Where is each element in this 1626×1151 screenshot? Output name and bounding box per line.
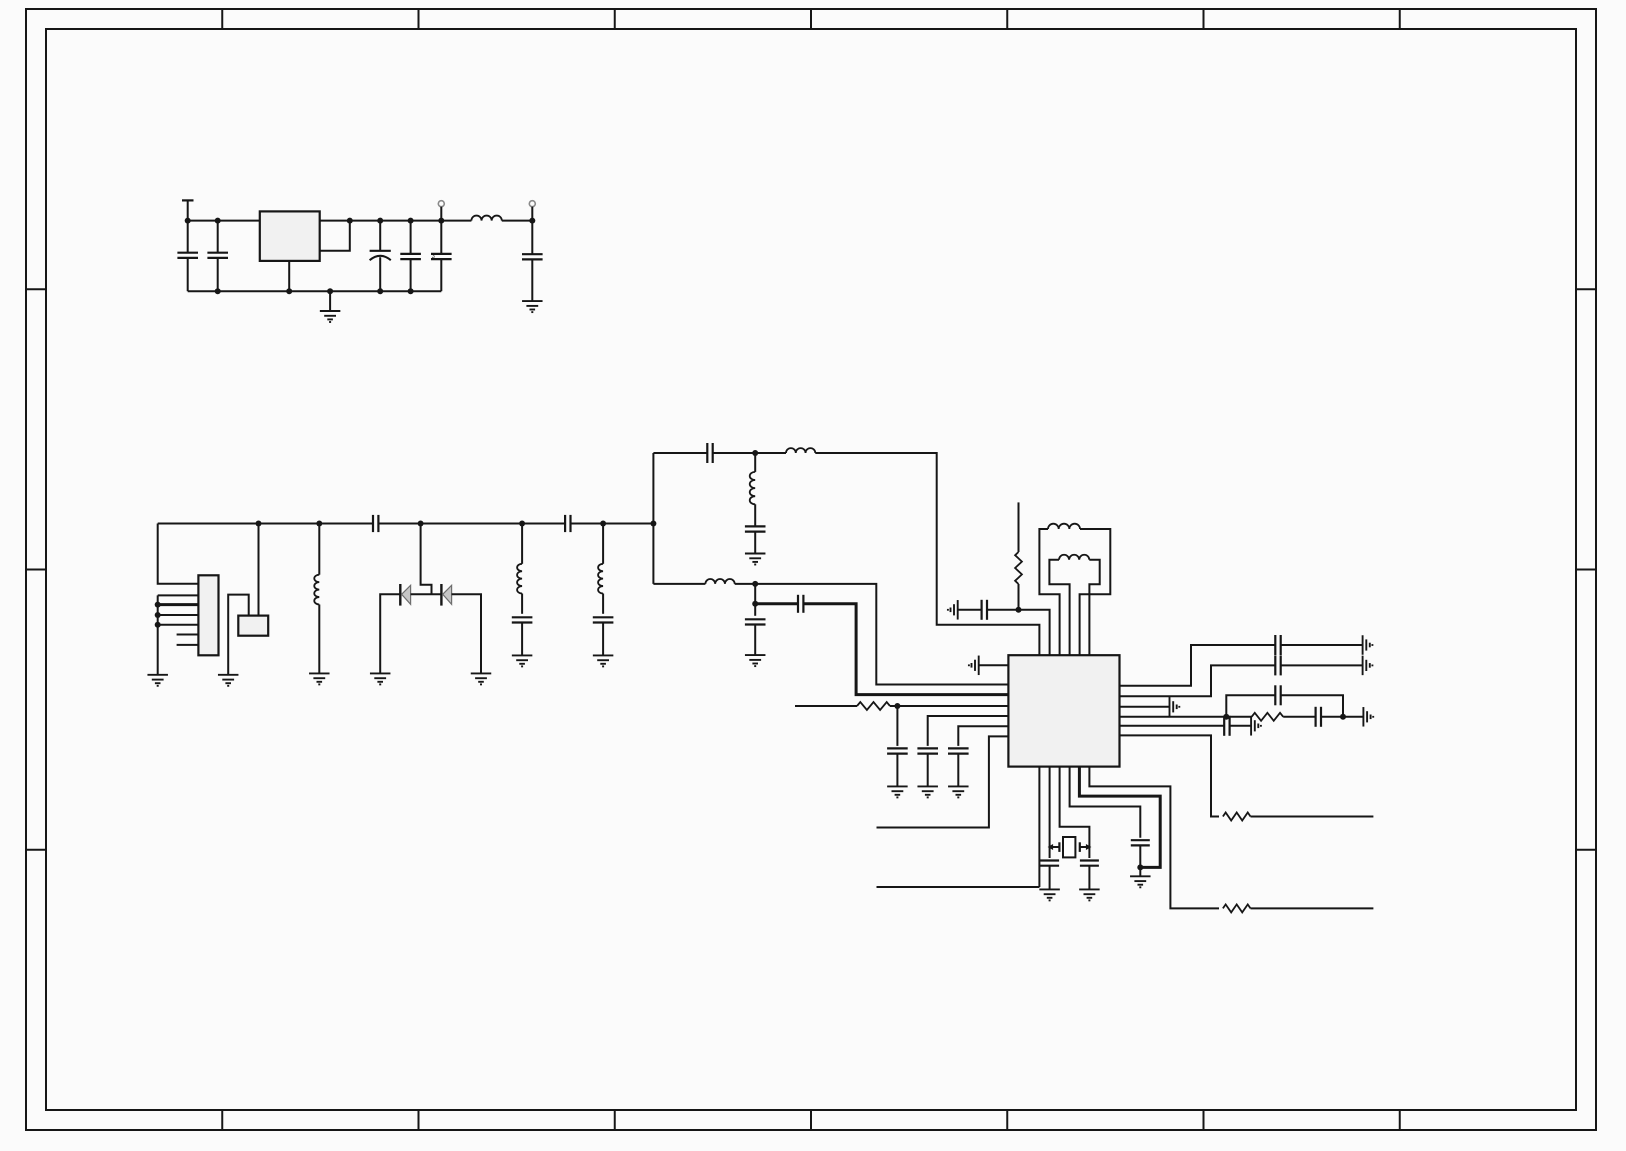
ground - L2	[309, 672, 330, 674]
node - branch L4 junction	[600, 521, 606, 527]
node - U2 rail junction	[256, 521, 262, 527]
capacitor C24 (parallel branch)	[1226, 685, 1343, 717]
capacitor C13 (series, thick line)	[798, 595, 803, 613]
varactor D1	[400, 584, 410, 606]
ground - D2	[471, 672, 492, 674]
inductor L1	[441, 216, 532, 221]
ground - right line1	[1362, 635, 1364, 655]
component U2	[238, 616, 268, 636]
wire - J1 pin1 to rail	[158, 524, 199, 584]
wire - IC pin to crystal right	[1060, 767, 1090, 858]
inductor L2 (shunt)	[314, 524, 319, 674]
ground - right line2	[1362, 656, 1364, 676]
node - pin3 junction	[155, 602, 161, 608]
node - C3 top	[377, 218, 383, 224]
wire - IC left pin to C17	[928, 716, 1009, 746]
node - upper matching node	[752, 450, 758, 456]
wire - L7 to node	[735, 583, 756, 585]
wire - J1 pin3 (thick)	[158, 603, 199, 606]
capacitor C15 (top bypass)	[958, 600, 1019, 620]
wire - D2 cathode to ground	[452, 594, 481, 673]
resistor R5	[1223, 904, 1251, 912]
ground - D1	[370, 672, 391, 674]
ground - RC network	[1362, 707, 1364, 727]
node - RC input	[1223, 714, 1229, 720]
node - diode feed junction	[418, 521, 424, 527]
ground - C19	[1039, 888, 1060, 890]
inductor L4	[598, 524, 603, 614]
regulator U1	[260, 211, 320, 261]
ground - J1	[147, 674, 168, 676]
wire - U1 ground lead	[288, 261, 290, 291]
capacitor C14 (shunt at lower node)	[745, 604, 766, 655]
node - C21 ground junction	[1137, 864, 1143, 870]
wire - C11 to node	[713, 452, 756, 454]
wire - C22 to ground	[1281, 644, 1363, 646]
resistor R1 (top stub)	[1015, 502, 1022, 609]
inductor L5 (series)	[755, 448, 815, 453]
IC U3	[1008, 655, 1119, 766]
ground - U2	[218, 674, 239, 676]
node - L1 output junction	[529, 218, 535, 224]
wire - IC right pin1 route	[1120, 645, 1276, 686]
terminal - regulator output	[438, 201, 444, 221]
node - pin4 junction	[155, 612, 161, 618]
wire - J1 pin6 stub	[177, 634, 199, 636]
capacitor C2	[207, 221, 228, 292]
ground - C9	[512, 654, 532, 656]
wire - U2 pin A to ground	[228, 595, 249, 675]
ground - top bypass	[957, 600, 959, 620]
node - C4 top	[408, 218, 414, 224]
wire - rail T junction vertical	[652, 453, 654, 584]
wire - D1 anode to ground	[380, 594, 400, 673]
wire - J1 ground bus	[157, 595, 159, 674]
wire - varactor feed from rail	[421, 524, 432, 595]
wire - IC right pin5	[1120, 725, 1225, 727]
crystal Y1	[1048, 837, 1092, 857]
wire - IC left pin to C18	[958, 726, 1008, 746]
wire - RC to ground	[1343, 716, 1363, 718]
inductor L6 (shunt at upper node)	[750, 453, 755, 526]
inductor L7 (series)	[705, 579, 734, 584]
power flag VCC	[182, 200, 194, 220]
ground - C16	[887, 785, 908, 787]
wire - lower node to IC RF pin	[755, 584, 1008, 685]
capacitor C26 (series)	[1224, 716, 1229, 736]
transformer T1 outer winding	[1039, 524, 1110, 656]
wire - IC pin to R5 line	[1089, 767, 1219, 909]
wire - IC right pin2 route	[1120, 665, 1276, 696]
node - lower matching node	[752, 581, 758, 587]
wire - main RF rail	[158, 523, 373, 525]
capacitor C23 (series)	[1275, 655, 1280, 675]
resistor R2 (left bias)	[795, 702, 1008, 710]
capacitor C20 (crystal load)	[1080, 861, 1099, 890]
node - R2 output junction	[894, 703, 900, 709]
capacitor C17 (bypass)	[917, 748, 938, 786]
wire - IC right pin4	[1120, 716, 1227, 718]
wire - J1 pin5	[158, 624, 199, 626]
wire - input rail	[188, 220, 442, 222]
wire - J1 pin7 stub	[177, 644, 199, 646]
varactor D2	[441, 584, 451, 606]
node - rail end junction	[650, 521, 656, 527]
connector J1	[198, 575, 218, 655]
node - C2 top junction	[215, 218, 221, 224]
wire - varactor common node	[411, 593, 442, 595]
capacitor C6	[522, 221, 543, 302]
wire - IC pin XTAL1	[1038, 767, 1040, 887]
ground - right pin5	[1250, 716, 1252, 736]
wire - IC left pin stub (enable)	[877, 736, 1009, 827]
node - U1 ground junction	[286, 288, 292, 294]
node - C2 bottom junction	[215, 288, 221, 294]
node - thick line tap	[752, 601, 758, 607]
node - C3 bottom	[377, 288, 383, 294]
ground - C10	[593, 654, 614, 656]
capacitor C19 (crystal load)	[1040, 861, 1059, 890]
wire - U2 pin B to rail	[258, 524, 260, 616]
node - VCC junction	[185, 218, 191, 224]
wire - U1 feedback loop	[320, 221, 350, 251]
wire - lower branch	[653, 583, 705, 585]
wire - J1 pin4	[158, 614, 199, 616]
capacitor C11 (series)	[707, 443, 712, 463]
ground - C20	[1079, 888, 1100, 890]
ground - C17	[917, 785, 938, 787]
ground - C21	[1130, 867, 1151, 887]
node - ground junction	[327, 288, 333, 294]
capacitor C18 (bypass)	[948, 748, 969, 786]
wire - R5 output stub	[1251, 907, 1374, 909]
capacitor C10	[593, 617, 614, 655]
wire - C26 to ground	[1230, 725, 1252, 727]
wire - thick RF line to IC	[803, 604, 1008, 695]
wire - R4 output stub	[1251, 816, 1374, 818]
wire - node to IC pin VCO	[1019, 610, 1050, 655]
capacitor C12	[745, 526, 766, 553]
capacitor C1	[177, 221, 198, 292]
node - R1/C15 junction	[1016, 607, 1022, 613]
capacitor C22 (series)	[1275, 635, 1280, 655]
wire - IC pin to C21	[1070, 767, 1141, 838]
wire - C23 to ground	[1281, 664, 1363, 666]
capacitor C21	[1131, 840, 1150, 867]
ground - right pin3	[1169, 697, 1171, 717]
ground - C18	[948, 785, 969, 787]
ground - IC left pin 1	[969, 656, 1009, 676]
wire - lower node down leg	[754, 584, 756, 604]
wire - thick return to C21 (IC pin)	[1079, 767, 1160, 868]
capacitor C8 (series in rail)	[565, 515, 570, 532]
wire - IC pin XTAL2 branch	[1049, 767, 1051, 858]
node - L2 rail junction	[316, 521, 322, 527]
node - RC output junction	[1340, 714, 1346, 720]
terminal - filtered output	[529, 201, 535, 221]
wire - IC right pin3 to ground	[1120, 706, 1170, 708]
node - feedback to output rail	[347, 218, 353, 224]
node - C5 top	[438, 218, 444, 224]
wire - L5 to IC loop	[815, 453, 1039, 655]
node - branch L3 junction	[519, 521, 525, 527]
resistor R4	[1223, 813, 1251, 821]
capacitor C25 (series after R3)	[1283, 707, 1343, 727]
resistor R3 (parallel branch)	[1226, 713, 1283, 721]
wire - IC bottom data stub	[877, 886, 1040, 888]
node - C4 bottom	[408, 288, 414, 294]
capacitor C9	[512, 617, 533, 655]
capacitor C3 (electrolytic)	[370, 221, 391, 292]
inductor L3	[517, 524, 522, 614]
wire - J1 pin2	[158, 594, 199, 596]
svg-text:3: 3	[432, 254, 435, 260]
wire - bottom return rail	[188, 290, 442, 292]
wire - thick RF line left part	[755, 602, 798, 605]
capacitor C16 (bypass)	[887, 706, 908, 786]
wire - IC right pin6 to R4	[1120, 735, 1220, 816]
ground - power section	[320, 291, 341, 322]
capacitor C5 with polarity mark	[431, 221, 452, 292]
ground - C12	[745, 553, 766, 555]
node - pin5 junction	[155, 622, 161, 628]
transformer T1 inner winding	[1049, 555, 1099, 655]
capacitor C4	[400, 221, 421, 292]
wire - upper branch	[653, 452, 707, 454]
capacitor C7 (series in rail)	[373, 515, 378, 532]
ground - C14	[745, 654, 766, 656]
ground - C6	[522, 300, 543, 302]
